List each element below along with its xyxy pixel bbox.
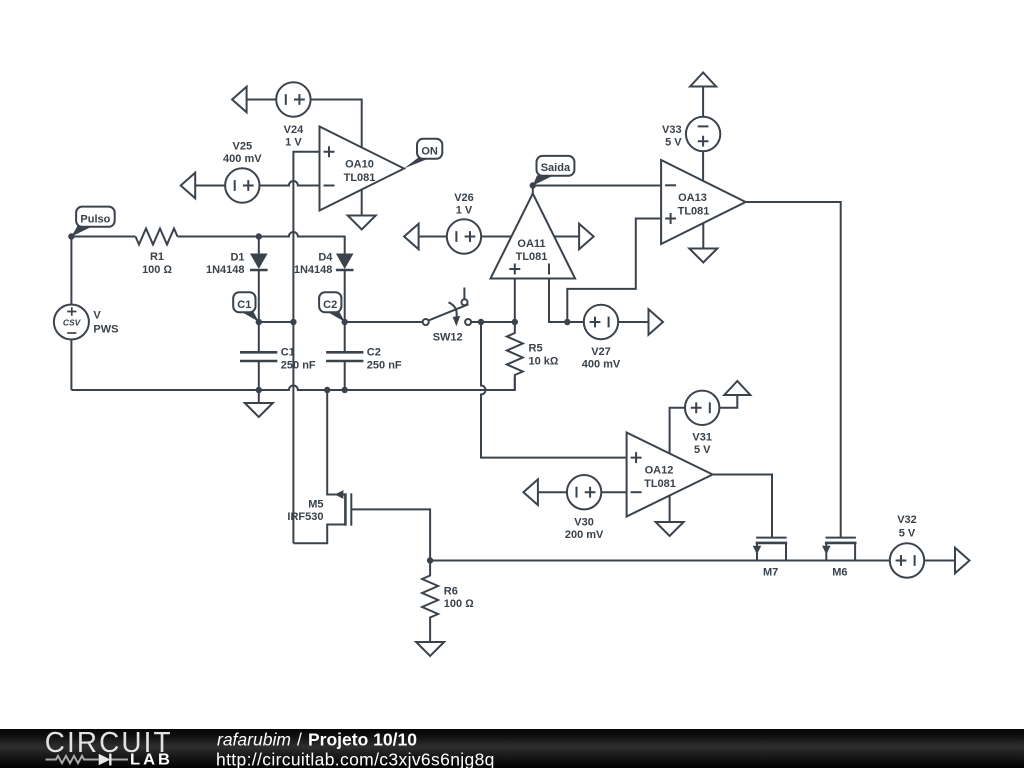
resistor R5 [507,322,559,390]
node dot rail ground [256,387,262,393]
port arrow left of V30 [523,479,538,505]
svg-text:V32: V32 [897,514,917,526]
svg-text:TL081: TL081 [644,478,676,490]
voltage source V31 [685,391,719,456]
flag C1 [233,292,259,322]
svg-text:IRF530: IRF530 [287,511,323,523]
svg-text:R5: R5 [529,343,543,355]
svg-text:1 V: 1 V [285,137,302,149]
svg-text:OA11: OA11 [517,238,545,250]
svg-text:OA13: OA13 [678,192,707,204]
svg-text:V31: V31 [692,431,712,443]
svg-text:LAB: LAB [130,752,173,768]
svg-text:V: V [93,310,101,322]
wire V30 to OA12 minus [601,491,626,493]
wire V25 to OA10 minus input with hop [260,181,320,186]
wire V32 to port [924,560,955,562]
wire port to V25 [195,185,225,187]
wire OA10 plus input to long vertical [293,152,319,544]
svg-text:400 mV: 400 mV [582,359,621,371]
svg-text:CSV: CSV [63,318,82,328]
svg-text:1N4148: 1N4148 [206,264,245,276]
wire switch to R5 node [471,321,515,323]
ground R6 [416,642,444,656]
svg-text:1 V: 1 V [456,205,473,217]
port arrow right of V32 [955,548,970,574]
voltage source V24 [276,82,310,148]
svg-text:100 Ω: 100 Ω [142,264,172,276]
op-amp OA11 TL081 pointing up [491,194,576,279]
voltage source V26 [447,192,481,254]
wire V27 to port [618,321,648,323]
wire OA12 V- to ground [669,496,671,523]
svg-text:TL081: TL081 [678,206,710,218]
resistor R1 [136,229,178,276]
voltage source V PWS (CSV) [54,305,119,340]
svg-text:5 V: 5 V [665,137,682,149]
op-amp OA12 TL081 [627,433,713,517]
svg-text:OA12: OA12 [645,464,674,476]
port arrow right of OA11 [579,224,594,250]
port arrow for V26 [404,224,419,250]
ground symbol under rail [245,390,273,417]
wire V33 to OA13 V+ [702,151,704,181]
node dot C2 [342,319,348,325]
port arrow right of V27 [649,309,664,335]
wire OA11 plus input down [514,279,516,323]
wire V31 to up port [719,395,737,408]
svg-text:M7: M7 [763,566,778,578]
svg-text:SW12: SW12 [433,331,463,343]
svg-text:D4: D4 [318,252,333,264]
port arrow for V25 [181,173,196,199]
svg-text:250 nF: 250 nF [367,359,402,371]
svg-text:C2: C2 [367,346,381,358]
flag Saida [533,156,575,186]
wire V24 to OA10 V+ [311,100,362,148]
ground OA10 [348,216,376,230]
diode D4 1N4148 [294,252,354,323]
capacitor C1 [240,322,316,390]
mosfet M6 [822,538,857,579]
svg-text:R6: R6 [444,585,458,597]
svg-text:V27: V27 [591,346,611,358]
svg-text:Saida: Saida [541,162,571,174]
capacitor C2 [326,322,402,390]
voltage source V33 [662,117,720,151]
node dot Saida [530,182,536,188]
wire OA12 plus feed vertical with hop [481,322,627,458]
voltage source V32 [890,514,924,578]
svg-text:TL081: TL081 [344,172,376,184]
flag C2 [319,292,345,322]
svg-text:V33: V33 [662,124,682,136]
svg-text:Projeto 10/10: Projeto 10/10 [308,730,417,750]
node dot switch right [478,319,484,325]
wire main row left [71,236,135,238]
svg-text:5 V: 5 V [899,527,916,539]
voltage source V25 [223,140,262,202]
diode D1 1N4148 [206,237,268,323]
mosfet M7 [753,538,788,579]
svg-text:V24: V24 [284,124,304,136]
svg-text:C1: C1 [237,299,251,311]
wire port to V26 [419,236,447,238]
svg-text:M6: M6 [832,566,847,578]
wire C2 node to switch [345,321,423,323]
svg-text:Pulso: Pulso [80,213,110,225]
wire OA13 output down to M6 gate [746,202,841,538]
wire V26 to OA11 left power [481,236,511,238]
wire OA13 plus feed [567,219,661,323]
svg-text:1N4148: 1N4148 [294,264,333,276]
node dot C1 to vertical [290,319,296,325]
voltage source V27 [582,305,621,371]
svg-text:http://circuitlab.com/c3xjv6s6: http://circuitlab.com/c3xjv6s6njg8q [216,750,495,768]
port arrow above V33 [690,73,716,87]
wire port to V33 [702,87,704,117]
node dot rail C2 bottom [342,387,348,393]
wire OA11 output stem to Saida node [532,186,534,194]
mosfet M5 IRF530 [287,390,430,561]
node dot C1 [256,319,262,325]
node dot rail M5 drain [324,387,330,393]
node dot D1 top [256,233,262,239]
ground OA13 [689,249,717,263]
wire C1 node to vertical line [259,321,294,323]
flag Pulso [71,207,114,237]
resistor R6 [422,561,474,643]
wire OA11 right power to port [554,236,579,238]
svg-text:5 V: 5 V [694,444,711,456]
wire junction to V27 [567,321,584,323]
svg-text:ON: ON [421,146,438,158]
wire port to V24 [247,99,277,101]
bottom rail to V32 [430,560,890,562]
op-amp OA10 TL081 [320,127,405,211]
switch SW12 [423,288,471,344]
wire V PWS left branch [70,237,72,305]
wire V PWS to ground rail [70,340,72,391]
node dot Pulso [68,233,74,239]
svg-text:R1: R1 [150,251,164,263]
svg-text:OA10: OA10 [345,158,374,170]
wire OA11 minus input down to junction [549,279,567,323]
voltage source V30 [565,475,604,541]
footer bar [0,727,1024,768]
svg-text:V25: V25 [233,140,253,152]
node dot V27 junction [564,319,570,325]
wire Saida to OA13 minus [533,185,661,187]
wire port to V30 [538,491,567,493]
svg-text:V26: V26 [454,192,474,204]
svg-text:TL081: TL081 [516,251,548,263]
svg-text:10 kΩ: 10 kΩ [529,355,559,367]
node dot R5 top [512,319,518,325]
svg-text:200 mV: 200 mV [565,529,604,541]
wire OA13 V- to ground [702,223,704,249]
wire main row to D4 with hop over vertical [178,232,345,254]
svg-text:100 Ω: 100 Ω [444,598,474,610]
op-amp OA13 TL081 [661,160,746,244]
port arrow above V31 [724,381,750,395]
svg-text:M5: M5 [308,498,323,510]
wire OA12 V+ to V31 [670,408,685,454]
svg-text:C2: C2 [323,299,337,311]
svg-text:D1: D1 [230,252,244,264]
svg-text:400 mV: 400 mV [223,153,262,165]
port arrow for V24 [232,87,247,113]
flag ON [404,139,442,169]
ground rail with hop [71,378,514,391]
svg-text:V30: V30 [574,516,594,528]
wire OA12 output down to M7 gate [713,475,772,538]
node dot R6 top [427,557,433,563]
svg-text:/: / [297,730,302,750]
svg-text:250 nF: 250 nF [281,359,316,371]
wire OA10 V- to ground [361,190,363,216]
svg-text:PWS: PWS [93,324,118,336]
svg-text:rafarubim: rafarubim [217,730,291,750]
ground OA12 [656,522,684,536]
